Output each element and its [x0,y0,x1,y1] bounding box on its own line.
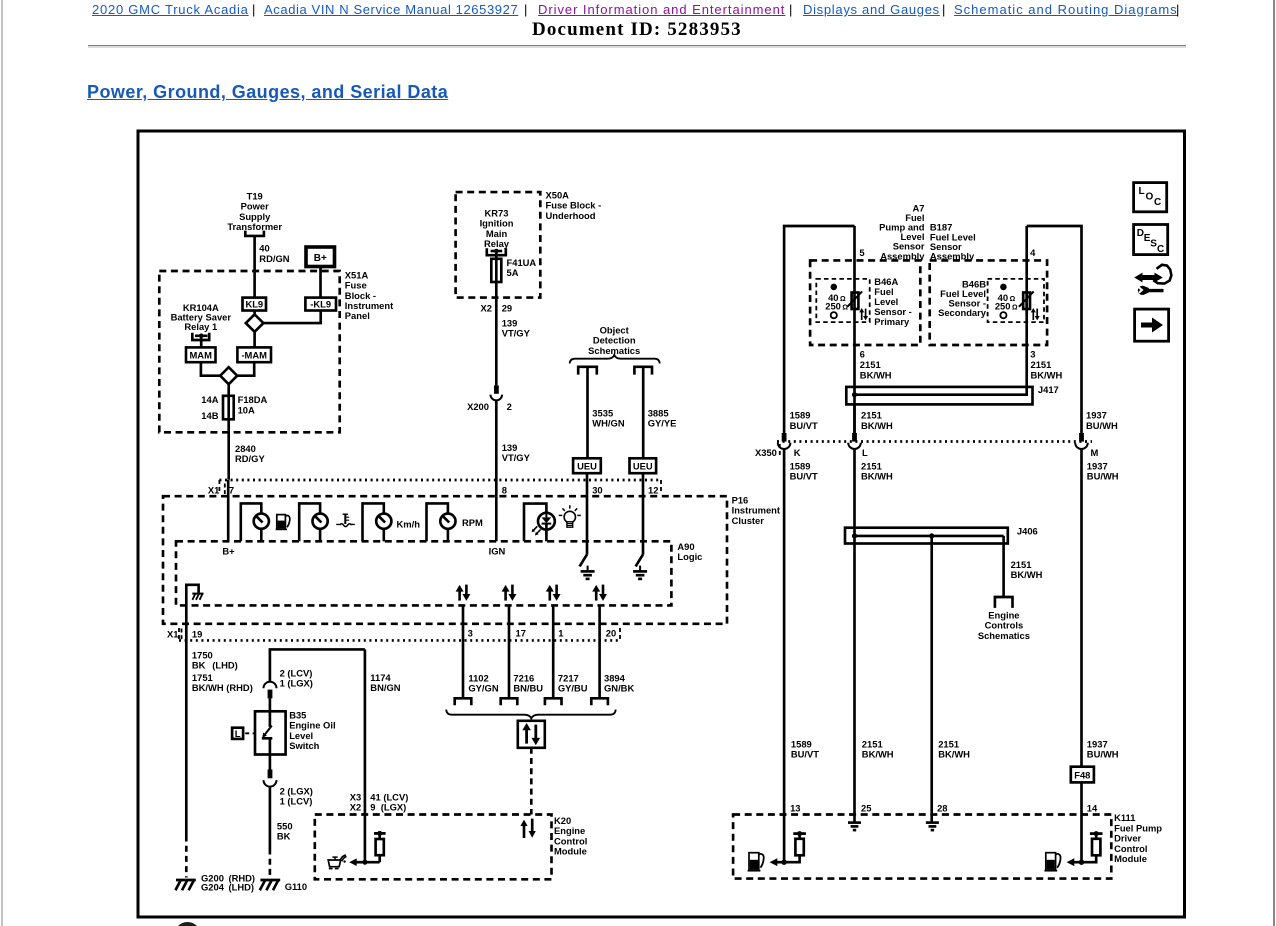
serial terminal pin 1 [545,698,562,705]
wire -MAM to diamond 2 [237,362,254,376]
svg-text:14B: 14B [201,410,218,421]
svg-text:MAM: MAM [190,350,213,361]
svg-text:BK/WH: BK/WH [861,471,893,482]
svg-text:BK: BK [192,660,206,671]
svg-text:Logic: Logic [677,551,702,562]
LED emission arrows [532,526,541,535]
wire diamond 2 to fuse F18DA [227,384,230,480]
wire B+ feed into cluster [227,480,230,541]
svg-text:14A: 14A [201,394,218,405]
oil pressure sender resistor in K20 [362,831,385,865]
svg-text:J406: J406 [1017,526,1038,537]
svg-text:BU/VT: BU/VT [790,471,818,482]
serial terminal pin 17 [501,698,518,705]
earth ground pin 25 [848,823,861,831]
svg-text:20: 20 [606,627,616,638]
wire label 1102 GY/GN [468,672,498,693]
connector X350 terminal M [1075,433,1088,449]
svg-text:10A: 10A [238,404,255,415]
svg-text:X1: X1 [167,628,178,639]
svg-text:9 (LGX): 9 (LGX) [370,802,406,813]
relay KR73 coil symbol [487,248,506,259]
svg-text:X1: X1 [208,485,219,496]
wire 2151 below J417 [853,404,856,434]
wire into B35 [269,698,272,711]
engine oil can icon [328,855,346,868]
page right frame border [1273,0,1275,926]
fuse block X50A dashed box [456,192,541,298]
connector X350 terminal K [778,433,791,449]
sensor B46B label [938,278,987,318]
svg-text:Underhood: Underhood [546,210,596,221]
svg-text:Ω: Ω [1010,296,1016,303]
toolbar icon LOC box [1134,183,1167,212]
svg-text:Module: Module [554,846,587,857]
telltale LED branch [524,504,555,542]
serial data arrows pin 3 [456,585,471,601]
ground G200/G204 symbol [175,880,195,890]
document id title [532,19,742,41]
switch to ground pin 12 [633,554,647,579]
breadcrumb link 5 [954,2,1178,17]
svg-text:BU/WH: BU/WH [1087,749,1119,760]
instrument cluster P16 label [732,494,780,525]
svg-text:19: 19 [192,628,202,639]
transformer T19 label [227,190,282,232]
toolbar icon forward arrow box [1135,309,1169,341]
fuel level sensor B187 label [930,222,976,262]
sensor B46A label [874,276,912,327]
svg-text:-MAM: -MAM [241,350,267,361]
serial terminal pin 20 [591,698,608,705]
wire label 1937 BU/WH above X350 [1086,410,1118,431]
svg-text:BK: BK [277,831,291,842]
junction diamond 2 [220,367,237,384]
terminal UEU box left [573,458,601,473]
arrow to oil can [349,858,365,866]
connector X1 row (bottom) [167,628,620,640]
chassis ground inside A90 [186,585,203,606]
horizontal rule [88,45,1186,48]
splice pack J406 [845,528,1008,544]
svg-text:28: 28 [937,802,947,813]
terminal MAM box [186,347,216,362]
svg-text:5: 5 [859,247,864,258]
fuel sensor primary wire pin 5 [853,226,856,435]
speedometer gauge [363,503,392,541]
indicator bulb icon [559,505,581,527]
wire B+ to -KL9 [319,267,322,298]
relay KR73 label [480,207,514,249]
svg-text:X2: X2 [481,302,492,313]
svg-text:(LHD): (LHD) [229,882,255,893]
svg-text:X200: X200 [467,401,489,412]
ground G110 symbol [260,880,280,890]
wire label 7216 BN/BU [513,672,543,693]
wire diamond 1 to -MAM [253,332,256,348]
svg-text:6: 6 [860,348,865,359]
svg-text:17: 17 [516,627,526,638]
svg-text:VT/GY: VT/GY [502,328,531,339]
breadcrumb link 1 [92,2,249,17]
svg-text:O: O [1146,192,1154,203]
fuse F41UA label [507,257,537,278]
pump driver resistor left [781,831,806,865]
terminal KL9 box [243,298,267,311]
serial data arrows pin 20 [592,585,607,601]
svg-text:4: 4 [1030,247,1036,258]
svg-text:Schematics: Schematics [978,630,1030,641]
svg-text:X2: X2 [350,802,361,813]
wire label 139 VT/GY lower [502,442,531,463]
fuse F18DA body [223,396,234,420]
fuel sensor return wire 1937 top loop [1027,226,1082,435]
svg-text:13: 13 [790,802,800,813]
floating bottom button [174,922,201,926]
svg-text:BK/WH: BK/WH [1011,569,1043,580]
transformer T19 off-page bracket [245,231,264,236]
level sensor L box [232,728,254,740]
svg-text:BK/WH: BK/WH [860,369,892,380]
wire L 2151 down to K111 [853,449,856,823]
wire label 3885 GY/YE [648,407,677,428]
wire label 3894 GN/BK [604,672,634,693]
connector X200 label and pin 2 [467,401,512,412]
wire label 1589 BU/VT above X350 [790,410,818,431]
svg-text:Secondary: Secondary [938,307,987,318]
svg-text:C: C [1154,197,1161,208]
svg-text:G110: G110 [285,881,307,892]
svg-text:2: 2 [507,401,512,412]
svg-text:BN/BU: BN/BU [513,683,543,694]
svg-text:5A: 5A [507,267,519,278]
svg-text:GY/BU: GY/BU [558,683,588,694]
logic module A90 label [677,541,702,562]
wire 28 from J406 to K111 [930,536,933,823]
serial data arrows in K20 [520,819,535,838]
svg-text:7: 7 [229,485,234,496]
wire T19 to KL9 [253,236,256,298]
off-page bracket wire 3535 [578,367,597,375]
wire 550 BK [269,787,272,878]
wire label 1937 BU/WH lower [1087,738,1119,759]
wire -KL9 to diamond 1 [263,311,320,324]
fuse F41UA body [491,259,501,282]
svg-text:3: 3 [1030,348,1035,359]
svg-text:250: 250 [995,300,1011,311]
serial wire pin 17 [508,605,511,698]
wire label 2840 RD/GY [235,443,265,464]
svg-text:VT/GY: VT/GY [502,452,531,463]
terminal -MAM box [237,347,271,362]
switch B35 box [255,711,286,754]
svg-text:250: 250 [825,300,841,311]
fuse block X50A label [546,189,602,220]
svg-text:1 (LCV): 1 (LCV) [280,795,313,806]
ground wire from pin 19 [185,605,188,877]
node B+ box [306,247,335,267]
serial wire pin 1 [552,605,555,698]
coolant temp gauge [299,503,328,541]
svg-text:L: L [862,447,868,458]
svg-text:Primary: Primary [874,316,910,327]
svg-text:X350: X350 [755,447,777,458]
svg-text:B+: B+ [314,253,327,264]
svg-text:Km/h: Km/h [397,518,421,529]
fuel gauge [241,503,269,541]
arrow to fuel pump left [770,858,785,866]
svg-text:BU/WH: BU/WH [1087,471,1119,482]
wire KL9 to diamond [253,311,256,316]
logic module A90 dashed box [176,541,671,605]
svg-text:Relay: Relay [484,238,510,249]
serial data arrows pin 17 [502,585,517,601]
svg-text:GN/BK: GN/BK [604,683,634,694]
wire label 139 VT/GY upper [502,317,531,338]
svg-text:IGN: IGN [489,546,506,557]
wire 3885 GY/YE [642,367,645,459]
wire label 3535 WH/GN [592,407,625,428]
sensor B46A variable resistor [847,291,862,309]
engine control module K20 label [554,815,587,857]
connector X2 pin 29 labels [481,302,513,313]
fuel pump icon right [1044,853,1060,871]
svg-text:L: L [235,729,241,740]
terminal UEU box right [630,458,657,473]
sensor assembly B187 dashed box [930,260,1047,345]
svg-text:Module: Module [1114,853,1147,864]
inline connector above B35 [264,682,277,699]
terminal -KL9 box [305,298,336,311]
svg-text:F48: F48 [1074,770,1090,781]
earth ground pin 28 [926,823,939,831]
svg-text:GY/GN: GY/GN [468,683,498,694]
fuel pump assembly A7 label [879,202,925,261]
wire KR73 fuse down to X200 [495,259,498,386]
junction diamond 1 [246,314,264,331]
svg-text:BN/GN: BN/GN [370,682,400,693]
svg-text:BU/WH: BU/WH [1086,420,1118,431]
fuel pump icon [276,515,290,530]
wire label 1174 BN/GN [370,672,400,693]
wire label 2151 BK/WH lower left [862,738,894,759]
wire label 2151 BK/WH lower right [938,738,970,759]
sensor assembly A7 dashed box [810,260,920,345]
wire 1174 BN/GN vertical [364,649,367,862]
wire IGN into logic [495,496,498,541]
fuse block X51A label [345,269,393,321]
svg-text:RPM: RPM [462,517,483,528]
svg-text:Switch: Switch [289,740,319,751]
wire label 2151 BK/WH (pin3) [1031,359,1063,380]
connector X200 symbol [491,385,503,400]
wire label 1750 BK (LHD) [192,649,238,670]
svg-text:30: 30 [592,485,602,496]
svg-text:12: 12 [648,485,658,496]
svg-text:Transformer: Transformer [227,221,282,232]
fuse F48 box [1071,767,1094,783]
connector label 2 (LCV) 1 (LGX) [280,668,313,689]
connector X350 terminal L [848,433,861,449]
wire UEU right to switch [642,473,645,554]
sensor B46A signal arrows [859,308,868,320]
svg-text:8: 8 [502,485,507,496]
wire label 550 BK [277,820,293,841]
svg-text:3: 3 [468,627,473,638]
serial bus underbrace [446,710,616,719]
arrow to fuel pump right [1067,858,1082,866]
section heading link [87,82,448,103]
fuse block X51A dashed box [159,271,339,432]
svg-text:M: M [1091,447,1099,458]
svg-text:B+: B+ [222,546,235,557]
pin label 41 (LCV) 9 (LGX) [370,792,408,813]
connector X350 row [755,442,1092,459]
wire K 1589 down to K111 [783,449,786,862]
engine controls schematics label [978,609,1030,640]
splice pack J417 [846,387,1032,405]
ground G200/G204 label [201,873,255,893]
serial terminal pin 3 [455,698,472,705]
fuse label F18DA 10A [238,394,268,415]
breadcrumb link 3 (visited) [538,2,785,17]
sensor B46B signal arrows [1031,308,1040,320]
svg-text:Ω: Ω [1012,304,1018,311]
svg-text:BK/WH: BK/WH [1031,369,1063,380]
page left frame border [1,0,3,926]
wire label 2151 BK/WH above X350 [861,410,893,431]
toolbar icon vehicle data arrow [1134,265,1171,295]
svg-text:25: 25 [861,802,871,813]
svg-text:UEU: UEU [633,461,653,472]
object detection brace [570,355,660,364]
wire MAM to diamond 2 [201,362,220,376]
fuel sensor secondary wire pin 4 [1025,226,1028,387]
svg-text:J417: J417 [1038,384,1059,395]
svg-text:GY/YE: GY/YE [648,418,677,429]
sensor B46B inner dashed box [988,279,1044,322]
wire label 1937 BU/WH below X350 [1087,460,1119,481]
off-page bracket engine controls [995,597,1013,608]
svg-text:RD/GY: RD/GY [235,453,265,464]
svg-text:-KL9: -KL9 [310,299,331,310]
wire J406 to engine controls [1002,536,1005,597]
svg-text:Cluster: Cluster [732,515,765,526]
B35 branch top wire [270,649,365,681]
svg-text:C: C [1157,244,1164,255]
tachometer gauge [427,503,456,541]
engine control module K20 dashed box [315,815,552,880]
svg-text:K: K [794,447,801,458]
schematic outer border frame [138,131,1185,917]
svg-text:KL9: KL9 [245,299,263,310]
module K111 label [1114,812,1162,864]
serial wire pin 3 [462,605,465,698]
switch B35 label [289,709,335,751]
sensor B46A full/empty dots and values [825,284,848,319]
wire UEU left to switch [586,473,589,554]
wire M 1937 down to K111 [1080,449,1083,862]
wire label 2151 BK/WH (engine controls) [1011,559,1043,580]
svg-text:BK/WH: BK/WH [862,749,894,760]
svg-text:Relay 1: Relay 1 [184,321,217,332]
connector X1 row (top) [208,480,661,496]
toolbar icon DESC box [1134,225,1168,256]
svg-text:(LHD): (LHD) [212,660,238,671]
instrument cluster P16 dashed box [163,496,727,624]
svg-text:L: L [1139,186,1145,197]
sensor B46A inner dashed box [816,279,869,322]
breadcrumb link 4 [803,2,940,17]
dashed serial wire to K20 [530,748,533,815]
inline connector below B35 [264,755,277,787]
svg-text:BK/WH: BK/WH [938,749,970,760]
wire label 2151 BK/WH (pin6) [860,359,892,380]
svg-text:BK/WH (RHD): BK/WH (RHD) [192,682,253,693]
wire label 2151 BK/WH below X350 [861,460,893,481]
wire label 1751 BK/WH (RHD) [192,672,253,693]
svg-text:BK/WH: BK/WH [861,420,893,431]
fuel pump driver module K111 dashed box [733,815,1111,879]
serial wire pin 20 [598,605,601,698]
svg-text:BU/VT: BU/VT [791,749,819,760]
relay KR104A coil symbol [192,333,209,348]
connector label 2 (LGX) 1 (LCV) [280,786,313,807]
connector X3/X2 labels [350,792,361,813]
fuel pump icon left [748,853,764,871]
fuel sensor feed wire 1589 top loop [784,226,854,435]
breadcrumb link 2 [264,2,518,17]
relay KR104A label [171,302,232,332]
wire X200 to cluster [495,400,498,496]
svg-text:RD/GN: RD/GN [259,253,289,264]
sensor B46B full/empty dots and values [995,284,1018,319]
svg-text:UEU: UEU [577,461,597,472]
switch to ground pin 30 [580,554,595,579]
coolant temperature icon [336,514,355,526]
svg-text:14: 14 [1087,802,1098,813]
object detection schematics label [588,324,640,355]
sensor B46B variable resistor [1019,291,1034,309]
wire label 1589 BU/VT lower [791,738,819,759]
svg-text:WH/GN: WH/GN [592,418,625,429]
wire label 1589 BU/VT below X350 [790,460,818,481]
svg-text:1 (LGX): 1 (LGX) [280,677,313,688]
serial data arrows pin 1 [546,585,561,601]
svg-text:G204: G204 [201,882,225,893]
svg-text:29: 29 [502,302,512,313]
wire label 40 RD/GN [259,243,289,264]
svg-text:Panel: Panel [345,310,370,321]
pump driver resistor right [1079,831,1103,865]
wire label 7217 GY/BU [558,672,588,693]
wire 3535 WH/GN [586,367,589,459]
svg-text:1: 1 [558,627,563,638]
svg-text:BU/VT: BU/VT [790,420,818,431]
serial data box symbol [518,721,545,748]
off-page bracket wire 3885 [634,367,652,375]
